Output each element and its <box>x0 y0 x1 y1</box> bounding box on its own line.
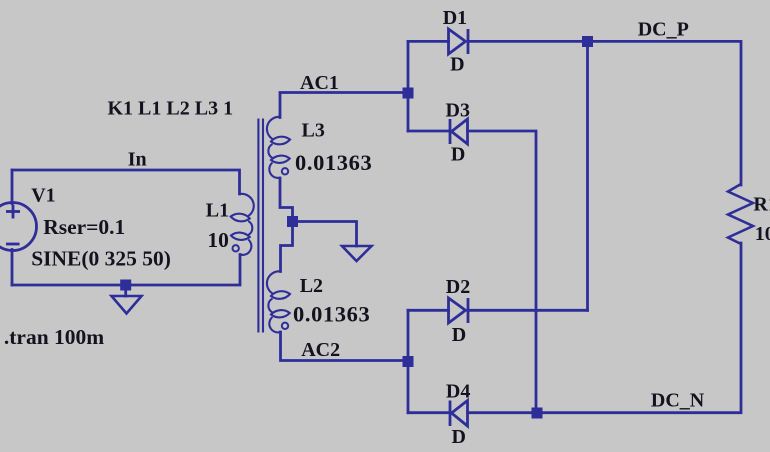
svg-text:D2: D2 <box>446 276 470 298</box>
svg-text:D3: D3 <box>446 99 470 121</box>
svg-text:0.01363: 0.01363 <box>293 302 370 327</box>
svg-text:V1: V1 <box>31 185 55 207</box>
resistor R (right edge, partially cut) <box>728 184 753 244</box>
svg-text:DC_P: DC_P <box>638 19 689 41</box>
wire D3 cathode to DC_N junction <box>468 131 537 413</box>
svg-text:In: In <box>128 149 147 171</box>
wire D4 row <box>408 411 449 414</box>
transformer core <box>258 119 263 333</box>
wire D1 anode <box>408 40 449 43</box>
diode D4 (points left) <box>450 401 468 427</box>
voltage source V1 <box>0 203 37 251</box>
svg-text:D4: D4 <box>446 381 470 403</box>
wire In top: V1 top to L1 top lead <box>12 170 240 194</box>
inductor L2 secondary coil (bottom) <box>267 271 290 332</box>
node junction AC1 <box>403 88 414 99</box>
svg-text:AC1: AC1 <box>300 72 339 94</box>
node junction V1 ground <box>120 280 131 291</box>
wire DC_N: D4 to right edge, up to resistor <box>468 243 742 413</box>
wire V1 top lead <box>11 170 14 204</box>
wire ground stub under V1 loop <box>124 285 127 296</box>
svg-text:D1: D1 <box>443 7 467 29</box>
svg-text:.tran 100m: .tran 100m <box>4 325 104 349</box>
wire DC_P junction down to D2 <box>586 41 589 310</box>
ground (center tap) <box>342 246 372 261</box>
wire D2 cathode to DC_P column <box>468 309 588 312</box>
diode D2 (points right) <box>449 298 469 323</box>
ground (under V1 loop) <box>112 296 142 314</box>
svg-text:L2: L2 <box>300 275 323 297</box>
wire AC2: L2 bottom to diode column <box>281 332 409 361</box>
svg-text:L3: L3 <box>302 120 325 142</box>
inductor L1 primary coil (mirrored) <box>231 194 254 255</box>
svg-text:SINE(0 325 50): SINE(0 325 50) <box>31 247 171 271</box>
node junction center tap <box>287 216 298 227</box>
svg-text:D: D <box>452 426 466 448</box>
diode D3 (points left) <box>450 119 468 144</box>
wire diode column bottom: D2 to D4 <box>407 310 410 412</box>
wire AC1: L3 top to diode column <box>280 93 408 118</box>
svg-text:L1: L1 <box>206 200 229 222</box>
wire V1 bottom lead <box>11 250 14 286</box>
node junction DC_N <box>532 408 543 419</box>
wire D3 row <box>408 130 449 133</box>
svg-text:K1 L1 L2 L3 1: K1 L1 L2 L3 1 <box>108 98 234 120</box>
diode D1 (points right) <box>449 29 469 54</box>
node junction DC_P <box>582 36 593 47</box>
wire center tap to ground <box>293 222 357 247</box>
wire L3 bottom to center tap <box>280 178 293 272</box>
svg-text:0.01363: 0.01363 <box>295 150 372 175</box>
svg-text:D: D <box>450 54 464 76</box>
svg-text:10: 10 <box>207 228 229 252</box>
wire diode column top: D1 to D3 <box>407 41 410 131</box>
inductor L3 secondary coil (top) <box>267 117 290 178</box>
node junction AC2 <box>403 356 414 367</box>
svg-text:10: 10 <box>755 223 770 245</box>
wire D2 anode <box>408 309 449 312</box>
svg-text:DC_N: DC_N <box>651 390 705 412</box>
wire DC_P: D1 cathode to right edge, down to resistor <box>468 41 741 185</box>
wire bottom: V1 to L1 bottom lead <box>12 255 240 286</box>
svg-text:AC2: AC2 <box>301 339 340 361</box>
svg-text:D: D <box>452 324 466 346</box>
svg-text:D: D <box>451 144 465 166</box>
svg-text:Rser=0.1: Rser=0.1 <box>43 215 125 239</box>
svg-text:R1: R1 <box>753 194 770 216</box>
